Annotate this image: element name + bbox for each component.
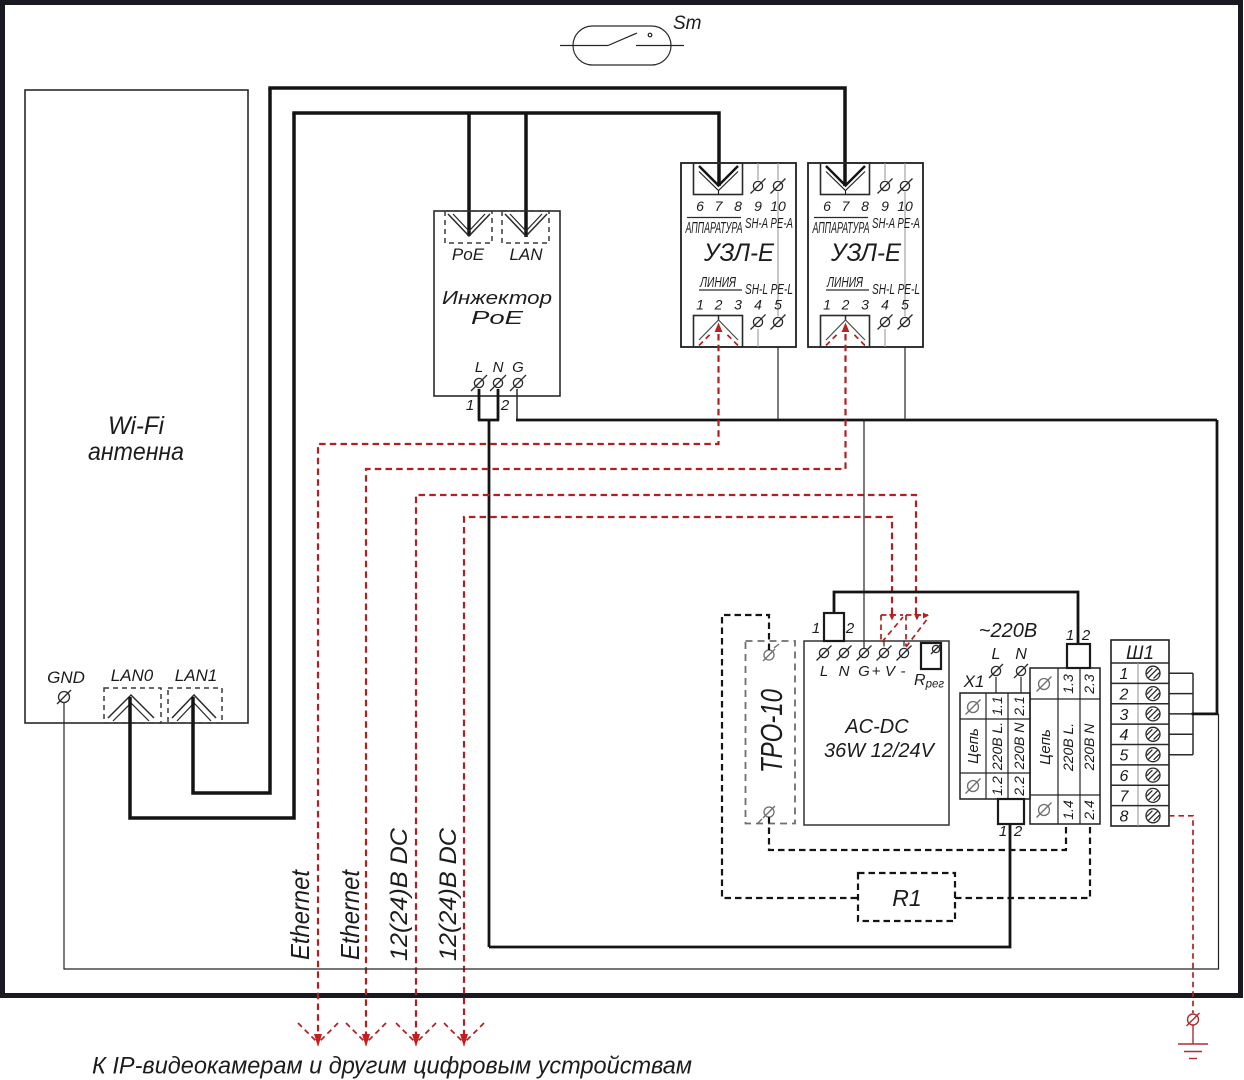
wire GND return bbox=[64, 703, 1219, 970]
Sh1 screw 2 bbox=[1146, 687, 1160, 701]
Sh1 screw 3 bbox=[1146, 707, 1160, 721]
svg-text:L: L bbox=[992, 646, 1001, 663]
svg-text:1: 1 bbox=[823, 297, 831, 313]
red wire Ethernet line 1 to UZL-E1 bbox=[318, 334, 719, 1036]
red arrow out 4 bbox=[444, 1023, 484, 1047]
svg-text:R1: R1 bbox=[892, 885, 921, 911]
red arrow out 3 bbox=[396, 1023, 436, 1047]
svg-text:ЛИНИЯ: ЛИНИЯ bbox=[826, 274, 863, 291]
Sh1 screw 4 bbox=[1146, 727, 1160, 741]
red wire 12V line 1 bbox=[416, 495, 916, 1036]
svg-text:L: L bbox=[475, 359, 483, 376]
svg-text:N: N bbox=[493, 359, 504, 376]
surge protector UZL-E 2 bbox=[808, 163, 923, 347]
svg-text:АППАРАТУРА: АППАРАТУРА bbox=[685, 220, 743, 237]
svg-text:1.4: 1.4 bbox=[1060, 800, 1076, 820]
wire LAN injector port to bus bbox=[524, 113, 528, 237]
svg-text:5: 5 bbox=[1120, 748, 1129, 765]
wire G bus bbox=[516, 419, 1217, 422]
svg-text:1: 1 bbox=[999, 823, 1007, 840]
red wire Sh1 row 8 to earth bbox=[1169, 816, 1200, 1044]
svg-text:L: L bbox=[820, 663, 828, 680]
svg-text:9: 9 bbox=[881, 198, 889, 214]
svg-text:8: 8 bbox=[1120, 809, 1129, 826]
switch Sm bbox=[560, 13, 702, 65]
svg-text:ЛИНИЯ: ЛИНИЯ bbox=[699, 274, 736, 291]
svg-text:G: G bbox=[512, 359, 524, 376]
Sh1 screw 1 bbox=[1146, 666, 1160, 680]
svg-text:4: 4 bbox=[1120, 727, 1129, 744]
svg-text:10: 10 bbox=[770, 198, 786, 214]
wire UZL-E1 PE-L drop bbox=[777, 347, 779, 420]
svg-text:УЗЛ-Е: УЗЛ-Е bbox=[830, 239, 901, 267]
injector port LAN bbox=[502, 211, 549, 264]
svg-text:АППАРАТУРА: АППАРАТУРА bbox=[812, 220, 870, 237]
svg-text:2: 2 bbox=[845, 620, 855, 637]
svg-text:5: 5 bbox=[901, 297, 909, 313]
svg-text:4: 4 bbox=[881, 297, 889, 313]
Sh1 bus rows 1-5 bbox=[1169, 673, 1219, 755]
svg-text:LAN0: LAN0 bbox=[111, 666, 154, 685]
wire 220V bottom run bbox=[489, 824, 1010, 947]
svg-text:1: 1 bbox=[1120, 666, 1129, 683]
thermostat TRO-10 bbox=[746, 641, 796, 824]
svg-text:6: 6 bbox=[1120, 768, 1129, 785]
svg-text:12(24)В DC: 12(24)В DC bbox=[435, 827, 462, 961]
svg-text:УЗЛ-Е: УЗЛ-Е bbox=[703, 239, 774, 267]
svg-text:2: 2 bbox=[1119, 687, 1129, 704]
svg-text:GND: GND bbox=[47, 668, 85, 687]
svg-text:7: 7 bbox=[1120, 789, 1130, 806]
svg-text:7: 7 bbox=[842, 198, 851, 214]
Sh1 screw 5 bbox=[1146, 748, 1160, 762]
svg-text:1.2: 1.2 bbox=[989, 776, 1005, 796]
port LAN0 bbox=[104, 666, 161, 723]
GND terminal bbox=[47, 668, 85, 704]
svg-text:-: - bbox=[901, 663, 906, 680]
svg-text:SH-A PE-A: SH-A PE-A bbox=[745, 215, 793, 232]
X1 plug pins 1 2 bbox=[998, 799, 1024, 840]
svg-text:2: 2 bbox=[841, 297, 850, 313]
red plug arrow to V- bbox=[906, 613, 929, 648]
svg-text:Ethernet: Ethernet bbox=[335, 868, 365, 960]
wire AC-DC mains bus bbox=[834, 592, 1078, 644]
svg-text:N: N bbox=[839, 663, 850, 680]
svg-text:G: G bbox=[858, 663, 870, 680]
svg-text:2: 2 bbox=[714, 297, 723, 313]
svg-text:12(24)В DC: 12(24)В DC bbox=[386, 827, 413, 961]
injector terminals L N G bbox=[471, 359, 526, 391]
svg-text:PoE: PoE bbox=[452, 245, 485, 264]
wire G stub from injector bbox=[516, 389, 518, 420]
black dashed thermostat loop top bbox=[722, 615, 858, 898]
svg-text:+: + bbox=[872, 663, 881, 680]
svg-text:1: 1 bbox=[696, 297, 704, 313]
earth ground bbox=[1178, 1044, 1208, 1059]
svg-text:2: 2 bbox=[500, 397, 510, 414]
svg-text:8: 8 bbox=[861, 198, 869, 214]
svg-text:9: 9 bbox=[754, 198, 762, 214]
svg-text:4: 4 bbox=[754, 297, 762, 313]
svg-text:антенна: антенна bbox=[88, 438, 184, 466]
svg-text:SH-A PE-A: SH-A PE-A bbox=[872, 215, 920, 232]
svg-text:1: 1 bbox=[466, 397, 474, 414]
wire injector 220V drop bbox=[488, 420, 491, 947]
red arrow out 2 bbox=[346, 1023, 386, 1047]
wire UZL-E2 PE-L drop bbox=[904, 347, 906, 420]
svg-text:220В L.: 220В L. bbox=[1060, 723, 1076, 772]
svg-text:Ш1: Ш1 bbox=[1126, 643, 1154, 664]
red wire 12V line 2 bbox=[464, 517, 892, 1036]
svg-text:PoE: PoE bbox=[471, 307, 524, 328]
svg-text:1: 1 bbox=[1066, 627, 1074, 644]
port LAN1 bbox=[168, 666, 222, 723]
surge protector UZL-E 1 bbox=[681, 163, 796, 347]
wire G bus to Sh1 bbox=[1216, 420, 1219, 715]
svg-text:3: 3 bbox=[1120, 707, 1129, 724]
AC-DC terminals L N G +V- bbox=[817, 641, 912, 680]
svg-text:36W 12/24V: 36W 12/24V bbox=[824, 740, 936, 762]
svg-text:X1: X1 bbox=[963, 672, 985, 691]
wire LAN1 riser bbox=[193, 88, 270, 793]
svg-text:2.2: 2.2 bbox=[1011, 776, 1027, 797]
terminal strip Sh1 bbox=[1111, 640, 1169, 826]
svg-text:6: 6 bbox=[696, 198, 704, 214]
svg-text:2.1: 2.1 bbox=[1011, 696, 1027, 716]
Sh1 screw 6 bbox=[1146, 768, 1160, 782]
red wire Ethernet line 2 to UZL-E2 bbox=[366, 334, 846, 1036]
svg-text:2: 2 bbox=[1081, 627, 1091, 644]
svg-text:1: 1 bbox=[812, 620, 820, 637]
svg-text:7: 7 bbox=[715, 198, 724, 214]
trimmer Rreg bbox=[914, 643, 944, 691]
injector plug pins 1 2 bbox=[466, 389, 510, 420]
svg-text:6: 6 bbox=[823, 198, 831, 214]
svg-text:3: 3 bbox=[734, 297, 742, 313]
svg-text:LAN1: LAN1 bbox=[175, 666, 218, 685]
svg-text:1.3: 1.3 bbox=[1060, 674, 1076, 694]
mains terminals L N bbox=[989, 646, 1028, 693]
svg-text:2.3: 2.3 bbox=[1081, 674, 1097, 695]
svg-text:N: N bbox=[1015, 646, 1027, 663]
svg-text:SH-L PE-L: SH-L PE-L bbox=[745, 281, 793, 298]
svg-text:2.4: 2.4 bbox=[1081, 800, 1097, 821]
svg-text:10: 10 bbox=[897, 198, 913, 214]
svg-text:220В N: 220В N bbox=[1011, 722, 1027, 771]
svg-text:ТРО-10: ТРО-10 bbox=[754, 689, 789, 773]
svg-text:Инжектор: Инжектор bbox=[442, 287, 552, 308]
svg-text:5: 5 bbox=[774, 297, 782, 313]
svg-text:3: 3 bbox=[861, 297, 869, 313]
terminal block X1 bbox=[960, 672, 1030, 799]
red arrow out 1 bbox=[298, 1023, 338, 1047]
wire bus y113 to UZL-E 1 bbox=[292, 113, 719, 186]
svg-text:2: 2 bbox=[1013, 823, 1023, 840]
terminal block XT bbox=[1030, 668, 1100, 824]
injector port PoE bbox=[445, 211, 492, 264]
svg-text:8: 8 bbox=[734, 198, 742, 214]
AC-DC power supply bbox=[804, 641, 949, 825]
PoE injector box bbox=[434, 211, 560, 396]
heater R1 bbox=[858, 873, 955, 921]
AC-DC plug pins 1 2 bbox=[812, 613, 855, 641]
wire bus y88 to UZL-E 2 bbox=[268, 88, 845, 186]
svg-text:1.1: 1.1 bbox=[989, 696, 1005, 715]
wire G to AC-DC bbox=[863, 420, 865, 648]
wire drop to PoE port bbox=[467, 113, 471, 236]
Sh1 screw 7 bbox=[1146, 788, 1160, 802]
svg-text:Sm: Sm bbox=[673, 13, 702, 34]
svg-text:Ethernet: Ethernet bbox=[285, 868, 315, 960]
black dashed R1 to XT 2.4 bbox=[955, 824, 1090, 898]
svg-text:Цепь: Цепь bbox=[1037, 729, 1054, 765]
red plug arrow to +V bbox=[881, 614, 903, 642]
Wi-Fi antenna box bbox=[25, 90, 248, 723]
svg-text:К IP-видеокамерам и другим циф: К IP-видеокамерам и другим цифровым устр… bbox=[92, 1053, 692, 1080]
svg-text:LAN: LAN bbox=[509, 245, 543, 264]
wire LAN0 to PoE injector bbox=[130, 113, 294, 818]
svg-text:Wi-Fi: Wi-Fi bbox=[108, 412, 165, 440]
svg-text:220В N: 220В N bbox=[1081, 723, 1097, 772]
svg-text:Цепь: Цепь bbox=[965, 728, 982, 764]
black dashed TRO-10 bottom to XT 1.4 bbox=[769, 817, 1066, 850]
svg-text:SH-L PE-L: SH-L PE-L bbox=[872, 281, 920, 298]
Sh1 screw 8 bbox=[1146, 809, 1160, 823]
svg-text:~220В: ~220В bbox=[979, 620, 1037, 642]
XT plug pins 1 2 bbox=[1066, 627, 1091, 668]
svg-text:220В L.: 220В L. bbox=[989, 722, 1005, 771]
svg-text:AC-DC: AC-DC bbox=[844, 716, 909, 738]
